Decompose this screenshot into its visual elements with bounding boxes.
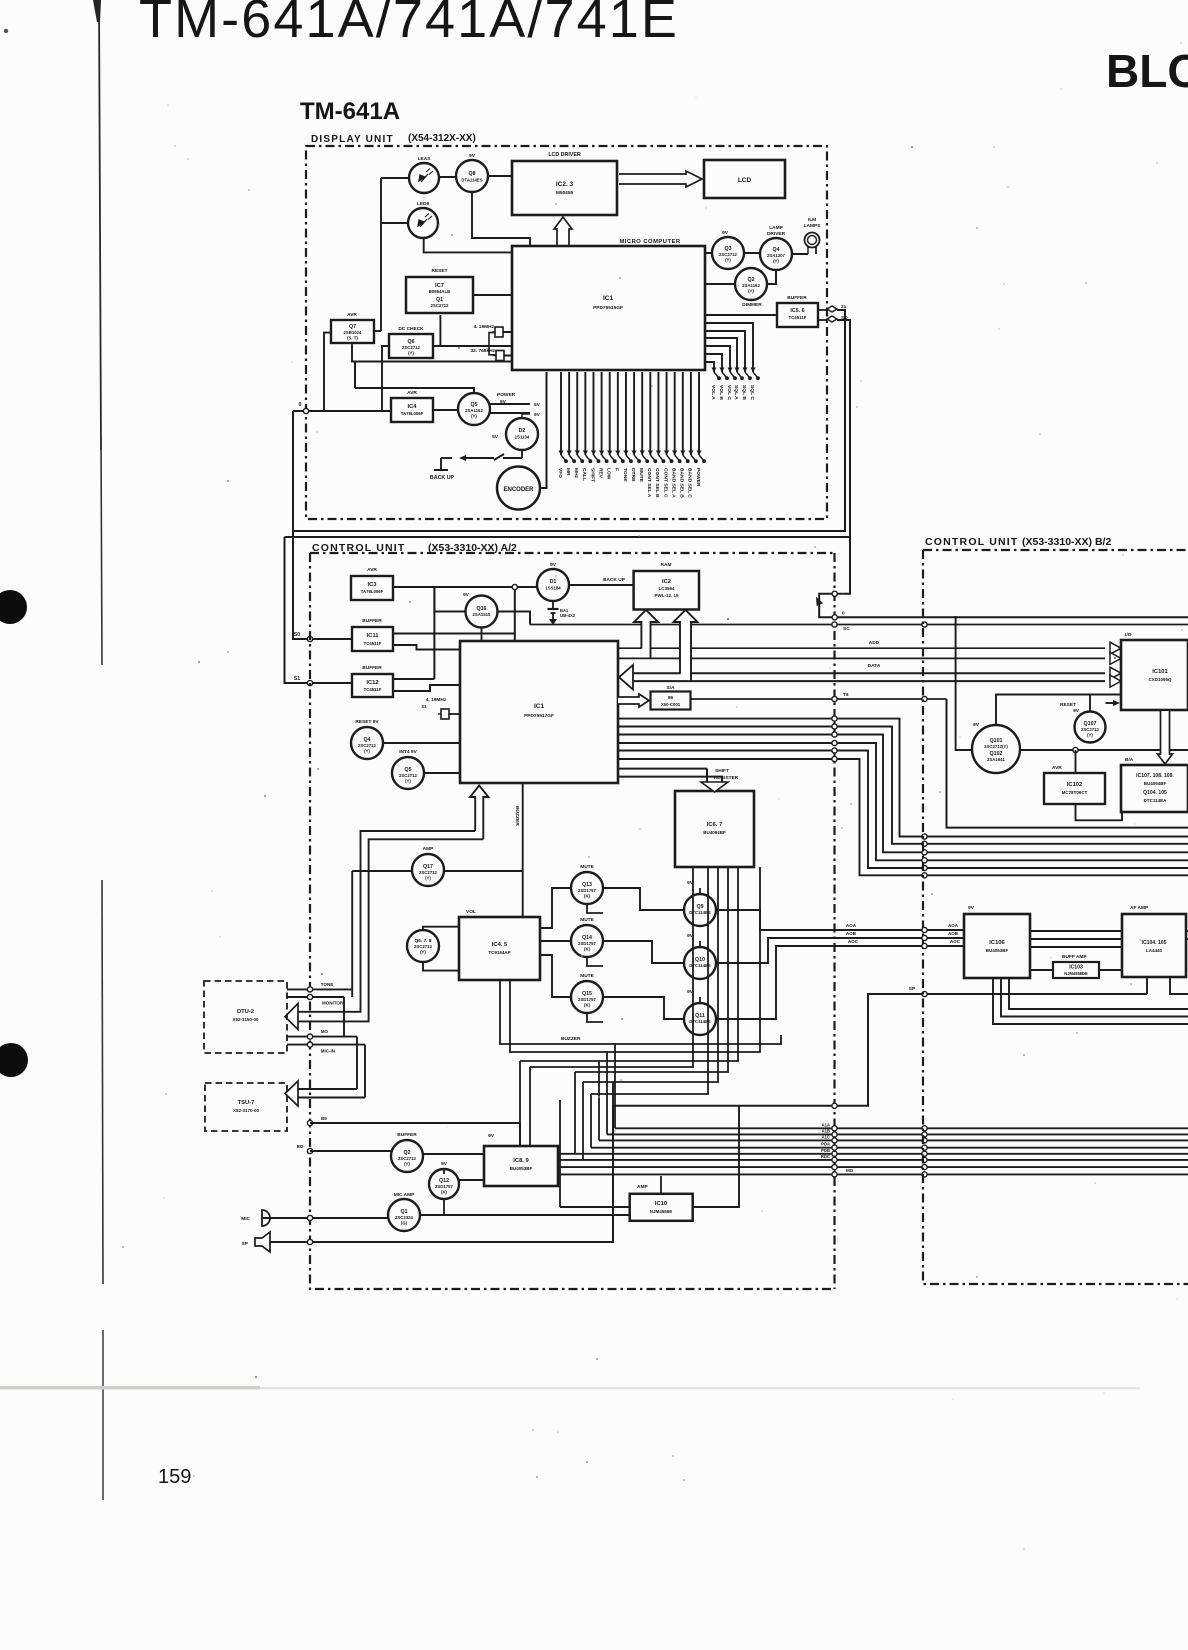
IC1 pin TONE	[625, 372, 627, 455]
svg-text:2SC2712: 2SC2712	[399, 773, 418, 778]
svg-text:MIC AMP: MIC AMP	[394, 1192, 415, 1198]
wire Q15 to Q11	[603, 997, 684, 1019]
wire display SD loop to control S1	[285, 320, 851, 537]
svg-text:TONE: TONE	[321, 982, 333, 987]
svg-text:MUTE: MUTE	[580, 917, 594, 923]
svg-text:DTRB: DTRB	[630, 468, 636, 482]
svg-text:DTC114EA: DTC114EA	[1144, 798, 1168, 803]
buffer IC12 TC4511F	[352, 674, 393, 697]
svg-text:(Y): (Y)	[748, 289, 754, 294]
wire MIC-IN drop	[364, 1045, 366, 1098]
svg-text:MUTE: MUTE	[638, 468, 644, 483]
IC1 pin MUTE	[641, 372, 643, 455]
svg-text:SQL C: SQL C	[749, 385, 755, 400]
transistor Q101 Q102	[972, 725, 1020, 773]
RAM address arrow	[634, 610, 658, 659]
svg-text:2SD1757: 2SD1757	[578, 997, 597, 1002]
ILM lamps	[805, 233, 820, 248]
svg-text:ADD: ADD	[869, 640, 880, 646]
svg-text:9V: 9V	[973, 722, 980, 728]
wire Q13 to Q9	[603, 888, 684, 910]
backup label wire D1 to IC2	[569, 584, 634, 586]
svg-text:32. 768kHz: 32. 768kHz	[470, 348, 495, 354]
svg-text:RAM: RAM	[661, 562, 672, 568]
svg-text:AVR: AVR	[367, 567, 377, 573]
9V rail label	[490, 412, 530, 414]
svg-text:IC12: IC12	[366, 680, 378, 686]
svg-text:9V: 9V	[968, 905, 975, 911]
svg-text:IC101: IC101	[1152, 669, 1168, 675]
svg-text:TC4511F: TC4511F	[364, 687, 382, 692]
svg-text:TC4511F: TC4511F	[789, 315, 807, 320]
node AOC wire Q11 to unit B	[716, 946, 964, 1019]
svg-text:MIC: MIC	[241, 1216, 250, 1222]
svg-text:Q104. 105: Q104. 105	[1143, 790, 1167, 796]
svg-text:4. 19MHz: 4. 19MHz	[473, 324, 494, 330]
switch block IC106 BU4053BF	[964, 914, 1030, 978]
svg-text:(G): (G)	[401, 1221, 408, 1226]
IC1 microcomputer block	[512, 246, 705, 370]
svg-text:IC1: IC1	[603, 295, 614, 302]
svg-text:PDB: PDB	[821, 1148, 830, 1153]
wire MO drop	[356, 1037, 358, 1089]
wire encoder to IC1	[540, 372, 547, 488]
switch block IC8,9 BU4053BF	[484, 1146, 558, 1186]
svg-text:SP: SP	[909, 986, 916, 992]
DTU-2 option box	[204, 981, 287, 1053]
svg-text:DTU-2: DTU-2	[237, 1009, 254, 1015]
wire LED rail left	[380, 178, 382, 331]
svg-text:(K): (K)	[584, 894, 591, 899]
svg-text:LC3564: LC3564	[658, 586, 675, 591]
wire AVR IC4 row node 0	[306, 410, 391, 412]
IC1 pin REV	[601, 372, 603, 455]
node AOA wire Q9 to unit B	[716, 910, 964, 930]
transistor Q107 2SC2712 reset	[1075, 712, 1106, 743]
wire T6 drop to lower row	[947, 699, 1188, 828]
svg-text:S1: S1	[294, 676, 301, 682]
svg-text:IC11: IC11	[367, 633, 380, 639]
wire Q4 to IC1	[383, 742, 460, 744]
wire Q8 connections	[472, 193, 530, 246]
svg-text:(S. T): (S. T)	[347, 336, 358, 341]
svg-text:IC4: IC4	[407, 404, 417, 410]
crystal X1 4.19MHz	[441, 709, 449, 719]
node MO row	[558, 1173, 1188, 1175]
wire S1 drop	[285, 537, 353, 683]
svg-text:RESET: RESET	[1060, 702, 1076, 708]
svg-text:2SC2712: 2SC2712	[1081, 727, 1100, 732]
six wire bundle IC1 to unit B	[618, 719, 1188, 837]
svg-text:IC107. 108. 109.: IC107. 108. 109.	[1136, 773, 1174, 779]
svg-text:2SC2712: 2SC2712	[414, 944, 433, 949]
svg-text:BLOC: BLOC	[1106, 45, 1188, 97]
wires IC106 to IC104	[1030, 930, 1122, 932]
svg-text:1SS184: 1SS184	[545, 586, 561, 591]
microphone jack MIC	[262, 1210, 270, 1226]
transistor Q13 2SD1757 mute	[571, 872, 603, 904]
IC1 pin BAND SEL A	[674, 372, 676, 455]
svg-text:BACK UP: BACK UP	[430, 475, 455, 481]
IC1 pin CONT SEL A	[649, 372, 651, 455]
IC1 pin SQL C	[706, 323, 753, 372]
svg-text:9V: 9V	[1073, 708, 1080, 714]
svg-text:LCD DRIVER: LCD DRIVER	[548, 152, 581, 158]
svg-text:IC5. 6: IC5. 6	[790, 308, 804, 314]
binding crease line left margin	[99, 0, 101, 450]
svg-text:CONTROL UNIT: CONTROL UNIT	[925, 536, 1019, 548]
wire Q678 to IC4,5	[423, 927, 459, 930]
buzzer wire IC1 to IC4,5	[522, 784, 524, 917]
wire Q2 to IC8,9	[423, 1153, 484, 1155]
svg-text:D1: D1	[550, 579, 557, 585]
svg-text:(X53-3310-XX) B/2: (X53-3310-XX) B/2	[1022, 536, 1111, 548]
transistor Q4 2SC2712 reset	[351, 727, 383, 759]
amplifier IC10 NJM4556E	[630, 1194, 693, 1221]
wire IC3 to D1 rail	[393, 586, 537, 588]
svg-text:LAMP: LAMP	[769, 225, 783, 231]
svg-text:BUFFER: BUFFER	[362, 618, 382, 624]
transistor Q3 2SC2712	[712, 237, 744, 269]
svg-text:AF AMP: AF AMP	[1130, 905, 1149, 911]
wires IC106 bottom rows	[993, 978, 1188, 1024]
svg-text:LA4440: LA4440	[1146, 948, 1163, 953]
wire IC1 to Q2 to Q4	[705, 283, 735, 285]
svg-text:IC104. 105: IC104. 105	[1142, 940, 1167, 946]
svg-text:2SC2712: 2SC2712	[398, 1156, 417, 1161]
wire IC10 top	[660, 1176, 662, 1194]
transistor Q2 2SA1162 dimmer	[735, 268, 767, 300]
svg-text:ENCODER: ENCODER	[503, 487, 534, 493]
svg-text:2SA1207: 2SA1207	[767, 253, 786, 258]
scan noise speckles	[451, 234, 453, 236]
svg-text:BAND SEL A: BAND SEL A	[670, 468, 676, 498]
svg-text:AOC: AOC	[950, 939, 961, 944]
svg-text:MO: MO	[846, 1168, 854, 1173]
svg-text:LED9: LED9	[417, 201, 430, 207]
svg-text:TC4511F: TC4511F	[364, 641, 382, 646]
LED D-LED9 indicator	[408, 208, 438, 238]
svg-text:POWER: POWER	[497, 392, 516, 398]
wire display 21 loop to control S0	[293, 310, 845, 531]
svg-text:IC10: IC10	[655, 1201, 667, 1207]
wire Q4 to lamps	[792, 253, 808, 255]
wire Q101 row to IC102	[1075, 750, 1077, 773]
svg-text:BUZZER: BUZZER	[561, 1036, 581, 1042]
svg-text:2SC2712(Y): 2SC2712(Y)	[984, 744, 1008, 749]
svg-text:IC8. 9: IC8. 9	[513, 1158, 529, 1164]
wire IC10 output to SP line	[693, 1106, 739, 1207]
svg-text:9V: 9V	[534, 412, 541, 418]
svg-text:IC6. 7: IC6. 7	[707, 822, 722, 828]
IC1 pin CONT SEL C	[666, 372, 668, 455]
transistor Q16 2SA1515	[466, 596, 498, 628]
transistor Q5 2SC2712 INT4	[392, 757, 424, 789]
node BO	[307, 1148, 312, 1153]
signal bus A1A A1B A1C PDA PDB RDC rows	[615, 1127, 1188, 1129]
IC1 pin MR	[568, 372, 570, 455]
svg-text:0: 0	[842, 611, 845, 617]
IC1 pin MHz	[576, 372, 578, 455]
IC1 pin SHIFT	[592, 372, 594, 455]
svg-text:(X54-312X-XX): (X54-312X-XX)	[408, 133, 476, 144]
svg-text:MONITOR: MONITOR	[322, 1001, 344, 1006]
wire SC row	[530, 624, 1188, 626]
svg-text:BU4053BF: BU4053BF	[986, 948, 1009, 953]
svg-text:AOA: AOA	[846, 923, 857, 928]
diode D1 1SS184	[537, 569, 569, 601]
encoder	[497, 467, 540, 510]
svg-text:TM-641A: TM-641A	[300, 98, 400, 125]
svg-text:9V: 9V	[441, 1161, 448, 1167]
svg-text:IC4. 5: IC4. 5	[492, 942, 508, 948]
svg-text:X52-3150-00: X52-3150-00	[232, 1017, 259, 1022]
svg-text:LEAS: LEAS	[418, 156, 432, 162]
svg-text:2SA1162: 2SA1162	[742, 283, 760, 288]
svg-text:2SD1757: 2SD1757	[578, 941, 597, 946]
svg-text:SHIFT: SHIFT	[589, 468, 595, 482]
transistor Q10 DTC114ES	[684, 947, 716, 979]
RAM block IC2 LC3564	[634, 571, 699, 610]
svg-text:LCD: LCD	[738, 177, 752, 184]
svg-text:AOB: AOB	[948, 931, 959, 936]
svg-text:IC103: IC103	[1069, 965, 1083, 971]
wire Q5 to IC1	[424, 772, 460, 774]
node MO wire to DTU-2	[287, 1036, 357, 1038]
IC1 pin VOL A	[706, 362, 714, 372]
svg-text:RDC: RDC	[821, 1154, 830, 1159]
svg-text:4. 19MHz: 4. 19MHz	[426, 697, 447, 703]
wire Q16 to SC line	[498, 612, 531, 625]
wires IC104 bottom to SP	[1146, 977, 1148, 994]
AF amp IC104,105 LA4440	[1122, 914, 1186, 977]
wire rail drop to IC1 top	[514, 587, 516, 641]
5V rail label	[490, 403, 530, 405]
IC1 pin SQL A	[706, 338, 737, 372]
wire reset block to IC1	[473, 294, 512, 296]
svg-text:MUTE: MUTE	[580, 973, 594, 979]
svg-text:AOB: AOB	[846, 931, 857, 936]
svg-text:S0: S0	[294, 632, 301, 638]
IC1 pin VFO	[560, 372, 562, 455]
transistor Q15 2SD1757 mute	[571, 981, 603, 1013]
svg-text:S/A: S/A	[667, 685, 676, 691]
wire IC12 outputs	[393, 678, 434, 680]
AVR block Q7 2SB1024	[331, 320, 374, 343]
IC1 pin VOL C	[706, 346, 730, 372]
svg-text:IC2. 3: IC2. 3	[556, 181, 574, 188]
wire Q7/Q6 connections	[324, 333, 331, 411]
wire SP branch to buzzer nest	[612, 1082, 614, 1106]
bus arrow IC101 to B/A	[1158, 711, 1173, 764]
svg-text:CONT SEL A: CONT SEL A	[646, 468, 652, 498]
svg-text:F: F	[614, 468, 620, 471]
svg-text:PPD75517GF: PPD75517GF	[524, 713, 554, 719]
LED D-LEAS indicator	[409, 163, 439, 193]
svg-text:(Y): (Y)	[425, 876, 431, 881]
wire Q5 to D2	[522, 413, 530, 415]
buffer IC5,6 TC4511F	[777, 303, 818, 327]
svg-text:REV: REV	[597, 468, 603, 479]
svg-text:PWL-12. 15: PWL-12. 15	[654, 593, 679, 598]
wire MIC to Q1	[262, 1217, 388, 1219]
svg-text:2SC2712: 2SC2712	[402, 345, 421, 350]
volume block IC4,5 TC9154AP	[459, 917, 540, 980]
transistor Q11 DTC114ES	[684, 1003, 716, 1035]
svg-text:ILM: ILM	[808, 217, 816, 223]
IC1 pin SQL B	[706, 331, 745, 372]
IC1 pin POWER	[698, 372, 700, 455]
wire Q1 to IC10	[420, 1214, 630, 1216]
svg-text:LAMPS: LAMPS	[804, 223, 822, 229]
svg-text:1S1104: 1S1104	[515, 435, 530, 440]
svg-text:NJM4558DE: NJM4558DE	[1064, 971, 1088, 976]
svg-text:0: 0	[299, 402, 302, 408]
svg-text:TA78L006F: TA78L006F	[361, 589, 384, 594]
node MONITOR wire to DTU-2	[287, 996, 344, 998]
AVR block IC3 TA78L006F	[351, 576, 393, 600]
svg-text:BU4053BF: BU4053BF	[510, 1166, 533, 1171]
LCD block	[704, 160, 785, 198]
transistor Q5 2SA1162 power	[458, 393, 490, 425]
wire TSU-7 hollow arrow	[296, 1088, 357, 1090]
wire node 0 jog from SD loop	[819, 537, 1188, 617]
wire Q12 to IC8,9	[459, 1179, 484, 1181]
svg-text:T6: T6	[843, 692, 849, 698]
svg-text:9V: 9V	[463, 592, 470, 598]
svg-text:X52-3170-00: X52-3170-00	[233, 1108, 260, 1113]
wire SP line to unit B	[270, 994, 1147, 1242]
svg-text:2SB1024: 2SB1024	[344, 330, 363, 335]
speaker SP	[255, 1232, 270, 1252]
svg-text:M50455: M50455	[556, 190, 574, 196]
svg-text:DISPLAY UNIT: DISPLAY UNIT	[311, 134, 394, 145]
wire IC10 input	[560, 1206, 630, 1208]
mute transistor emitter stubs	[587, 904, 603, 913]
IC1 pin F	[617, 372, 619, 455]
wire IC1 to buffer IC5,6	[705, 314, 777, 316]
wire Q5 top power	[355, 388, 474, 393]
svg-text:(K): (K)	[441, 1190, 448, 1195]
scanner streak artifact	[0, 1387, 1140, 1389]
svg-text:2SC2712: 2SC2712	[431, 303, 450, 308]
svg-text:TM-641A/741A/741E: TM-641A/741A/741E	[139, 0, 679, 49]
I/O expander IC101 CXD1095Q	[1121, 640, 1188, 710]
node B9	[307, 1120, 312, 1125]
svg-text:X1: X1	[421, 704, 427, 709]
AVR block IC102	[1044, 773, 1105, 804]
svg-text:CALL: CALL	[581, 468, 587, 481]
transistor Q8 DTA114ES	[456, 160, 488, 192]
svg-text:(Y): (Y)	[364, 749, 370, 754]
svg-text:BUZZER: BUZZER	[514, 806, 520, 826]
svg-text:5V: 5V	[534, 402, 541, 408]
svg-text:159: 159	[158, 1466, 191, 1488]
wire Q17 input from TONE	[352, 870, 412, 872]
AVR block IC4 TA78L006F	[391, 398, 433, 422]
svg-text:(Y): (Y)	[405, 779, 411, 784]
svg-text:(Y): (Y)	[404, 1162, 410, 1167]
svg-text:86: 86	[668, 695, 674, 701]
node 0 display unit	[293, 410, 306, 412]
svg-text:VOL C: VOL C	[726, 385, 732, 400]
arrow IC1 to S/A	[618, 694, 649, 707]
svg-text:DTA114ES: DTA114ES	[461, 178, 482, 183]
nest drops to bus rows	[614, 1044, 616, 1128]
RAM data arrow	[674, 610, 698, 681]
control unit A dashed border	[310, 552, 835, 554]
transistor Q1 2SC2324 mic amp	[388, 1199, 420, 1231]
S/A block 86 X60-C001	[651, 692, 691, 710]
svg-text:(Y): (Y)	[420, 950, 426, 955]
svg-text:IC102: IC102	[1067, 782, 1082, 788]
crystal X 32.768kHz	[496, 351, 504, 361]
svg-text:2SC2712: 2SC2712	[719, 252, 738, 257]
svg-text:TSU-7: TSU-7	[238, 1100, 255, 1106]
punch hole mark left edge upper	[0, 590, 27, 624]
svg-text:SQL A: SQL A	[733, 385, 739, 400]
DC check block Q6 2SC2712	[389, 334, 433, 358]
svg-text:2SC2712: 2SC2712	[358, 743, 377, 748]
svg-text:BU4094BF: BU4094BF	[1144, 781, 1167, 786]
svg-text:(Y): (Y)	[408, 351, 414, 356]
svg-text:POWER: POWER	[695, 468, 701, 487]
bus arrow IC2,3 to LCD	[619, 171, 702, 187]
display unit dashed border	[306, 146, 827, 519]
svg-text:B9: B9	[321, 1116, 327, 1121]
wire DATA bus	[633, 672, 1105, 674]
wire rail to Q16	[434, 587, 465, 612]
wires IC4,5 to mute transistors	[540, 888, 571, 928]
svg-text:BUFFER: BUFFER	[362, 665, 382, 671]
svg-text:MICRO COMPUTER: MICRO COMPUTER	[619, 239, 680, 245]
svg-text:2SA1515: 2SA1515	[473, 612, 492, 617]
svg-text:Q8: Q8	[468, 171, 475, 177]
svg-text:PDA: PDA	[821, 1142, 830, 1147]
svg-text:2SD1757: 2SD1757	[435, 1184, 454, 1189]
svg-text:AVR: AVR	[347, 312, 357, 318]
svg-text:A1A: A1A	[822, 1122, 830, 1127]
svg-text:VOL B: VOL B	[718, 385, 724, 400]
wire Q107 to IC101	[1089, 695, 1091, 712]
wire T6 row	[691, 698, 947, 700]
svg-text:9V: 9V	[550, 562, 557, 568]
crystal X 4.19MHz	[495, 327, 503, 337]
backup switch and ground	[521, 450, 523, 458]
battery BA1 below D1	[552, 601, 554, 609]
B/A block IC107,108,109 Q104,105	[1121, 765, 1188, 812]
svg-text:INT4 9V: INT4 9V	[399, 749, 417, 755]
node 21 connector	[827, 306, 837, 312]
wires IC103 links	[1030, 969, 1053, 971]
svg-text:B/A: B/A	[1125, 757, 1134, 763]
svg-text:BAND SEL B: BAND SEL B	[679, 468, 685, 498]
svg-text:BUFFER: BUFFER	[787, 295, 807, 301]
svg-text:AMP: AMP	[637, 1184, 648, 1190]
svg-text:VOL A: VOL A	[710, 385, 716, 400]
svg-text:BUFF AMP: BUFF AMP	[1062, 954, 1087, 960]
IC1 pin DTRB	[633, 372, 635, 455]
svg-text:2SA1641: 2SA1641	[987, 757, 1006, 762]
TSU-7 option box	[205, 1083, 287, 1131]
wire Q101 collector row	[1020, 749, 1188, 751]
svg-text:AMP: AMP	[423, 846, 434, 852]
wire Q17 output	[444, 870, 523, 872]
svg-text:2SD1757: 2SD1757	[578, 888, 597, 893]
wire IC1 to Q3	[705, 252, 712, 254]
svg-text:(Y): (Y)	[725, 258, 731, 263]
svg-text:AOA: AOA	[948, 923, 959, 928]
